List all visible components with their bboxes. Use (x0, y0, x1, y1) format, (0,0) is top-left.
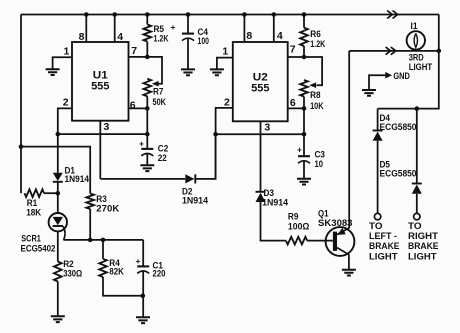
resistor R5 (144, 25, 152, 42)
svg-text:555: 555 (91, 81, 109, 93)
node pin2-pin6 U1 link left (56, 132, 61, 137)
diode D3 (256, 192, 266, 202)
svg-text:1N914: 1N914 (182, 195, 208, 205)
wire D4 top (377, 109, 379, 131)
svg-text:R6: R6 (310, 29, 321, 39)
wire D5 top (416, 109, 418, 184)
resistor R1 (25, 189, 45, 197)
label BRAKE right (408, 241, 439, 251)
label R5 (154, 24, 165, 34)
wire C3 top (303, 134, 305, 156)
ground C3 (297, 179, 311, 185)
wire U1 pin2 (58, 108, 72, 134)
ground U2 pin1 (210, 69, 224, 75)
label C2 plus (139, 139, 144, 149)
node C1-R4 ground junction (141, 294, 146, 299)
svg-text:R7: R7 (153, 86, 164, 96)
potentiometer R7 (144, 79, 152, 96)
svg-text:4: 4 (117, 31, 123, 43)
resistor R6 (300, 28, 308, 46)
resistor R2 (54, 262, 62, 282)
wire U2 pin7 stub (288, 56, 304, 58)
node D4-D5 rail junction (415, 106, 420, 111)
capacitor C1 (137, 266, 149, 273)
svg-text:1.2K: 1.2K (154, 33, 169, 43)
svg-text:1: 1 (222, 46, 228, 58)
capacitor C3 (298, 156, 310, 163)
node R4 top (101, 238, 106, 243)
label C4 value 100 (198, 36, 210, 46)
svg-text:1N914: 1N914 (262, 197, 288, 207)
label R2 value 330 (63, 268, 82, 278)
label D3 value 1N914 (262, 197, 288, 207)
diode D5 (412, 184, 422, 194)
node top-rail junction R5 (145, 12, 150, 17)
svg-text:+: + (139, 139, 144, 149)
label C3 plus (297, 145, 302, 155)
label U2 555 (251, 83, 269, 95)
label C2 (158, 144, 169, 154)
pin 7 U1 (131, 45, 137, 57)
wire Q1 emitter down (348, 254, 350, 269)
svg-text:330Ω: 330Ω (63, 268, 82, 278)
svg-text:220: 220 (153, 269, 166, 279)
label D3 (264, 188, 275, 198)
arrows on lamp line (386, 47, 396, 55)
svg-text:ECG5850: ECG5850 (380, 168, 417, 178)
wire R4 top (102, 240, 104, 259)
node pin7-R6-R8 junction (302, 55, 307, 60)
svg-text:7: 7 (290, 44, 296, 56)
wire U2 pin8 (243, 15, 245, 43)
svg-text:3: 3 (104, 121, 110, 133)
wire U1 pin3 to D2 (100, 178, 185, 180)
label C2 value 22 (158, 153, 167, 163)
wire U2 pin2 (216, 108, 233, 179)
diode D2 (185, 174, 195, 183)
svg-text:R2: R2 (63, 259, 73, 269)
wire C1 bottom (142, 271, 144, 317)
label R9 (288, 212, 299, 222)
node top-rail junction C4 (186, 12, 191, 17)
wire U1 pin6 stub (129, 107, 148, 109)
lamp I1 (407, 31, 425, 49)
wire R9 to Q1 base (307, 240, 333, 242)
node pin6-R8-C3 junction (302, 106, 307, 111)
label U1 (93, 70, 108, 82)
label R5 value 1.2K (154, 33, 169, 43)
svg-text:270K: 270K (96, 204, 120, 214)
wire D1 bottom (57, 182, 59, 193)
wire R1 to SCR node (44, 192, 58, 194)
pin 2 U1 (63, 97, 69, 109)
svg-text:50K: 50K (153, 97, 167, 107)
svg-text:1.2K: 1.2K (310, 39, 325, 49)
ground C1 (136, 317, 150, 323)
node R3 bottom (88, 238, 93, 243)
wire U1 pin3 (99, 121, 101, 179)
label R7 (153, 86, 164, 96)
wire D3 bottom (261, 202, 286, 241)
wire lamp line (349, 50, 439, 52)
label C3 value 10 (315, 159, 324, 169)
svg-text:ECG5850: ECG5850 (380, 122, 417, 132)
terminal left brake (374, 213, 380, 219)
label 3RD (409, 52, 424, 62)
svg-text:R5: R5 (154, 24, 165, 34)
svg-text:7: 7 (131, 45, 137, 57)
ground GND symbol (362, 90, 376, 96)
svg-text:6: 6 (290, 97, 296, 109)
label R6 (310, 29, 321, 39)
wire SCR anode (57, 193, 59, 213)
svg-text:C3: C3 (315, 150, 326, 160)
node left rail junction (19, 144, 24, 149)
label R1 (27, 198, 38, 208)
label U2 (253, 72, 268, 84)
label C1 plus (136, 256, 141, 266)
svg-text:SCR1: SCR1 (21, 233, 41, 243)
label D1 value 1N914 (65, 174, 90, 184)
svg-text:18K: 18K (26, 207, 41, 217)
pin 6 U1 (130, 99, 136, 111)
label SCR1 (21, 233, 41, 243)
thyristor SCR1 (49, 213, 67, 240)
svg-text:I1: I1 (411, 21, 418, 31)
label R1 value 18K (26, 207, 41, 217)
wire U2 pin1 (217, 58, 233, 69)
svg-text:6: 6 (130, 99, 136, 111)
node pin6-R7-C2 junction (145, 106, 150, 111)
potentiometer R8 (300, 80, 308, 97)
wire R4 bottom (103, 277, 143, 296)
svg-text:+: + (297, 145, 302, 155)
op-amp U1 box (72, 42, 129, 121)
wire U2 pin4 (273, 15, 275, 43)
svg-text:22: 22 (158, 153, 167, 163)
label C1 (153, 261, 164, 271)
label D2 (182, 186, 193, 196)
svg-text:LIGHT: LIGHT (409, 62, 433, 72)
label LIGHT under 3RD (409, 62, 433, 72)
svg-text:BRAKE: BRAKE (369, 241, 400, 251)
node C3 top (302, 132, 307, 137)
node U2 pin2 junction (213, 132, 218, 137)
label SCR1 value ECG5402 (21, 243, 56, 253)
wire U1 pin7 stub (129, 56, 148, 58)
diode D1 (53, 173, 63, 182)
ground C4 (181, 69, 195, 75)
label D2 value 1N914 (182, 195, 208, 205)
diode D4 (373, 131, 383, 141)
pin 3 U1 (104, 121, 110, 133)
svg-text:3RD: 3RD (409, 52, 424, 62)
wire D4 bottom (377, 141, 379, 214)
node pin7-R5-R7 junction (145, 55, 150, 60)
svg-text:8: 8 (79, 31, 85, 43)
pin 2 U2 (224, 97, 230, 109)
svg-text:2: 2 (63, 97, 69, 109)
svg-text:SK3083: SK3083 (318, 218, 353, 228)
wire pin6 down to C2 node (146, 108, 148, 134)
node top-rail junction pin8 U2 (242, 12, 247, 17)
pin 3 U2 (264, 121, 270, 133)
svg-text:1: 1 (64, 45, 70, 57)
svg-text:+: + (171, 22, 176, 32)
wire C2 top (146, 134, 148, 149)
svg-text:LIGHT: LIGHT (408, 252, 437, 262)
svg-text:D3: D3 (264, 188, 275, 198)
wire C4 top (187, 15, 189, 34)
svg-text:82K: 82K (109, 267, 124, 277)
wire U2 pin3 (260, 121, 262, 192)
wire pin2-pin6 link U1 (58, 133, 148, 135)
svg-text:ECG5402: ECG5402 (21, 243, 56, 253)
wire pin6 down to C3 node (303, 108, 305, 134)
label R4 (109, 258, 120, 268)
wire SCR cathode (57, 231, 59, 261)
node top-rail junction pin4 U2 (272, 12, 277, 17)
node top-rail junction pin8 U1 (84, 12, 89, 17)
svg-text:10K: 10K (310, 101, 324, 111)
ground Q1 (342, 270, 356, 276)
wire GND stub (369, 75, 386, 90)
pin 4 U2 (277, 30, 283, 42)
ground U1 pin1 (46, 69, 60, 75)
svg-text:TO: TO (369, 221, 383, 231)
svg-text:3: 3 (264, 121, 270, 133)
ground R2 (51, 316, 65, 322)
wire R8 bottom (303, 97, 305, 109)
resistor R4 (99, 259, 107, 277)
label LIGHT right (408, 252, 437, 262)
wire right rail (378, 15, 439, 109)
node top-rail junction pin4 U1 (112, 12, 117, 17)
label D5 value ECG5850 (380, 168, 417, 178)
wire R8 feedback loop (304, 57, 322, 85)
capacitor C2 (141, 149, 153, 156)
pin 8 U1 (79, 31, 85, 43)
resistor R9 (286, 237, 307, 245)
svg-text:10: 10 (315, 159, 324, 169)
node top-rail junction R6 (302, 12, 307, 17)
wire SCR gate line (63, 239, 143, 241)
node C2 top (145, 132, 150, 137)
label R7 value 50K (153, 97, 167, 107)
svg-text:555: 555 (251, 83, 269, 95)
wire R3 bottom (89, 209, 91, 240)
wire D2 to U2 pin2 (195, 134, 215, 179)
node D1-R1-SCR junction (56, 191, 61, 196)
label C4 (198, 27, 209, 37)
svg-text:100Ω: 100Ω (288, 221, 310, 231)
wire R5 bottom (146, 42, 148, 57)
label RIGHT (408, 231, 439, 241)
label R8 value 10K (310, 101, 324, 111)
wire D5 bottom (416, 194, 418, 214)
svg-text:GND: GND (393, 71, 410, 81)
label LEFT (369, 231, 397, 241)
svg-text:C2: C2 (158, 144, 169, 154)
label R8 (310, 90, 321, 100)
svg-text:+: + (136, 256, 141, 266)
svg-text:100: 100 (198, 36, 210, 46)
wire R7 bottom (146, 96, 148, 108)
wire Q1 collector up to lamp line (348, 51, 350, 229)
wire U1 pin4 (114, 15, 116, 43)
wire C3 bottom (303, 161, 305, 179)
label TO right (408, 221, 422, 231)
svg-text:R9: R9 (288, 212, 299, 222)
pin 7 U2 (290, 44, 296, 56)
svg-text:RIGHT: RIGHT (408, 231, 439, 241)
transistor Q1 (326, 227, 355, 256)
label R2 (63, 259, 73, 269)
pin 4 U1 (117, 31, 123, 43)
label D1 (65, 166, 76, 176)
pin 1 U1 (64, 45, 70, 57)
op-amp U2 box (233, 42, 288, 121)
svg-text:4: 4 (277, 30, 283, 42)
wire U2 pin6 stub (288, 107, 304, 109)
svg-text:LIGHT: LIGHT (369, 252, 398, 262)
label BRAKE left (369, 241, 400, 251)
label R9 value 100 (288, 221, 310, 231)
pin 8 U2 (246, 30, 252, 42)
arrows on top rail (387, 11, 398, 19)
label R3 (96, 194, 107, 204)
label TO left (369, 221, 383, 231)
svg-text:2: 2 (224, 97, 230, 109)
pin 1 U2 (222, 46, 228, 58)
pin 6 U2 (290, 97, 296, 109)
label R6 value 1.2K (310, 39, 325, 49)
label D5 (380, 160, 391, 170)
label I1 (411, 21, 418, 31)
wiper arrow R8 (309, 82, 316, 88)
wire D1 top (57, 134, 59, 173)
wire R3 top from left rail (21, 147, 90, 194)
label C4 plus (171, 22, 176, 32)
label C3 (315, 150, 326, 160)
svg-text:R8: R8 (310, 90, 321, 100)
wire left rail down to R1 (20, 15, 22, 194)
wire R2 bottom (57, 282, 59, 317)
label D4 (380, 113, 391, 123)
svg-text:Q1: Q1 (318, 209, 329, 219)
ground C2 (140, 165, 154, 171)
wire U1 pin1 (53, 57, 72, 69)
node lamp line right rail junction (437, 49, 442, 54)
svg-text:8: 8 (246, 30, 252, 42)
wire C2 bottom (146, 154, 148, 166)
label Q1 value SK3083 (318, 218, 353, 228)
wire R5 top (146, 15, 148, 25)
svg-text:TO: TO (408, 221, 422, 231)
svg-text:BRAKE: BRAKE (408, 241, 439, 251)
svg-text:R3: R3 (96, 194, 107, 204)
wire U1 pin8 (85, 15, 87, 43)
svg-text:1N914: 1N914 (65, 174, 90, 184)
svg-text:LEFT -: LEFT - (369, 231, 397, 241)
capacitor C4 (182, 34, 194, 41)
label GND (393, 71, 410, 81)
wire C4 bottom (187, 38, 189, 69)
wire U2 pin2-pin6 link (216, 133, 304, 135)
label U1 555 (91, 81, 109, 93)
label R4 value 82K (109, 267, 124, 277)
label R3 value 270K (96, 204, 120, 214)
label Q1 (318, 209, 329, 219)
wire R6 top (303, 15, 305, 28)
label LIGHT left (369, 252, 398, 262)
wiper arrow R7 (152, 81, 159, 87)
arrowhead GND (385, 72, 392, 79)
wire R6 bottom (303, 46, 305, 57)
terminal right brake (414, 213, 420, 219)
wire top +12V rail (21, 14, 439, 16)
label C1 value 220 (153, 269, 166, 279)
resistor R3 (86, 194, 94, 210)
wire C1 top (142, 240, 144, 267)
label D4 value ECG5850 (380, 122, 417, 132)
wire R7 feedback loop (147, 57, 162, 84)
